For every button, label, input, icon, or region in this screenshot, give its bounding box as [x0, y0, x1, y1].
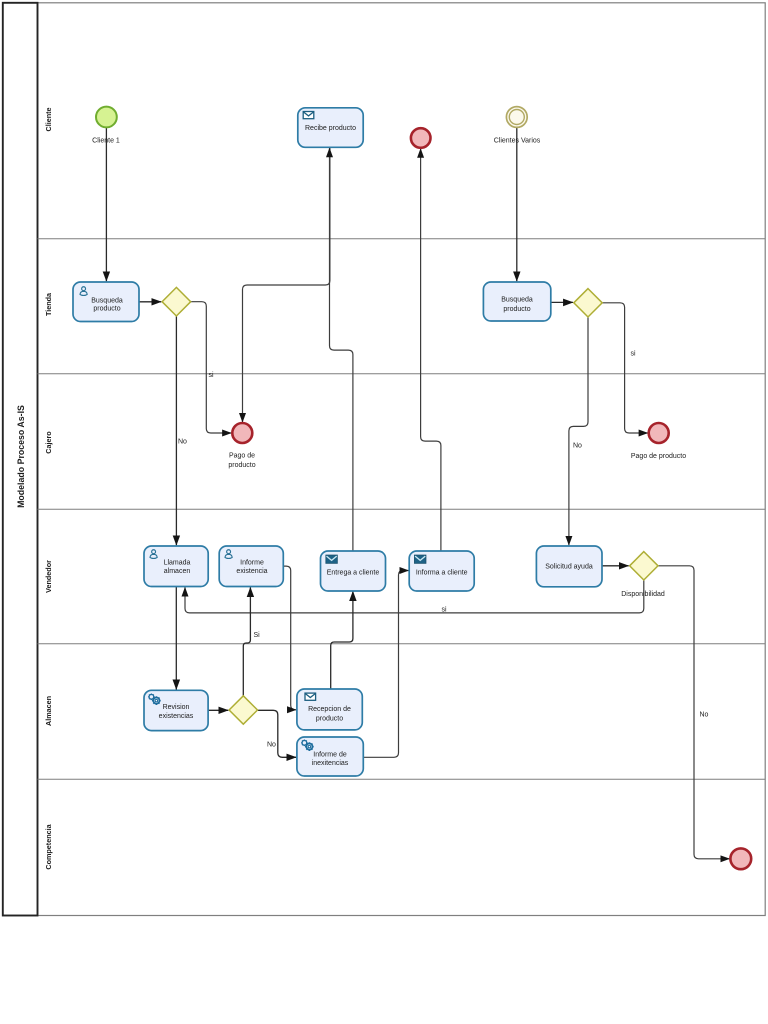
- svg-text:producto: producto: [228, 462, 255, 469]
- svg-text:Cajero: Cajero: [44, 431, 53, 454]
- task Informe existencia: [219, 546, 283, 587]
- gateway G4 (Almacen): [229, 696, 257, 724]
- task Revision existencias: [144, 690, 208, 730]
- svg-text:inexitencias: inexitencias: [312, 760, 349, 767]
- wire G2 si to Pago right: [602, 303, 647, 433]
- svg-text:Clientes Varios: Clientes Varios: [494, 138, 541, 145]
- svg-text:Informe: Informe: [240, 560, 264, 567]
- gateway Disponibilidad: [630, 552, 658, 580]
- wire Informe de inexitencias to Informa a cliente: [364, 571, 409, 758]
- wire Busqueda producto to gateway G1: [139, 301, 161, 303]
- lane divider 3: [38, 508, 766, 510]
- end event (Cliente lane): [411, 128, 431, 148]
- end event Pago de producto right: [649, 423, 669, 443]
- gateway G2 (Tienda right): [574, 289, 602, 317]
- wire Clientes Varios to Busqueda producto R: [516, 127, 518, 281]
- svg-text:producto: producto: [93, 306, 120, 313]
- pool header: [3, 3, 38, 916]
- wire G4 No to Informe de inexitencias: [258, 710, 296, 757]
- svg-text:Tienda: Tienda: [44, 292, 53, 316]
- svg-text:Pago de: Pago de: [229, 453, 255, 460]
- svg-text:Busqueda: Busqueda: [91, 297, 123, 304]
- svg-text:Informa a cliente: Informa a cliente: [416, 570, 468, 577]
- gateway G1 (Tienda left): [162, 287, 191, 316]
- wire Entrega a cliente to Recibe producto: [330, 148, 353, 551]
- svg-text:No: No: [700, 712, 709, 719]
- wire Disponibilidad No to Competencia end: [658, 566, 729, 859]
- svg-text:Pago de producto: Pago de producto: [631, 453, 686, 460]
- svg-text:Modelado Proceso As-IS: Modelado Proceso As-IS: [16, 405, 26, 508]
- wire Informa a cliente to end event Cliente: [421, 149, 441, 551]
- svg-text:producto: producto: [316, 716, 343, 723]
- svg-text:Informe de: Informe de: [313, 751, 347, 758]
- svg-text:No: No: [178, 439, 187, 446]
- svg-text:Cliente 1: Cliente 1: [92, 138, 120, 145]
- task Recibe producto: [298, 108, 363, 148]
- task Entrega a cliente: [321, 551, 386, 591]
- end event Competencia: [730, 848, 751, 869]
- svg-text:Entrega a cliente: Entrega a cliente: [327, 570, 380, 577]
- lane divider 2: [38, 373, 766, 375]
- svg-text:existencias: existencias: [159, 713, 194, 720]
- wire G4 Si to Informe existencia: [243, 587, 250, 695]
- task Solicitud ayuda: [536, 546, 602, 587]
- svg-text:si: si: [631, 351, 637, 358]
- wire Disponibilidad si to Llamada almacen (long): [185, 580, 644, 613]
- svg-text:producto: producto: [503, 306, 530, 313]
- start event Clientes Varios: [506, 107, 527, 128]
- lane divider 4: [38, 643, 766, 645]
- end event Pago de producto left: [232, 423, 252, 443]
- svg-text:Almacen: Almacen: [44, 696, 53, 726]
- svg-text:Busqueda: Busqueda: [501, 297, 533, 304]
- wire Busqueda R to gateway G2: [551, 301, 573, 303]
- svg-text:Si: Si: [254, 632, 261, 639]
- svg-text:almacen: almacen: [164, 568, 191, 575]
- wire Recepcion de producto to Entrega a cliente: [331, 591, 353, 689]
- task Busqueda producto (left): [73, 282, 139, 322]
- task Busqueda producto (right): [483, 282, 550, 321]
- svg-text:Solicitud ayuda: Solicitud ayuda: [545, 564, 593, 571]
- task Llamada almacen: [144, 546, 208, 587]
- svg-text:Llamada: Llamada: [164, 560, 191, 567]
- wire Recibe producto to Pago left: [243, 148, 330, 423]
- wire Solicitud ayuda to Disponibilidad: [602, 565, 628, 567]
- svg-text:Vendedor: Vendedor: [44, 560, 53, 593]
- task Recepcion de producto: [297, 689, 362, 730]
- svg-text:Cliente: Cliente: [44, 108, 53, 132]
- wire G1 si to Pago left: [191, 302, 232, 433]
- wire G1 No to Llamada almacen: [175, 316, 177, 545]
- svg-text:Recibe producto: Recibe producto: [305, 125, 356, 132]
- wire Llamada almacen to Revision existencias: [175, 587, 177, 690]
- svg-text:Disponibilidad: Disponibilidad: [621, 591, 665, 598]
- svg-text:existencia: existencia: [236, 568, 267, 575]
- wire G2 No to Solicitud ayuda: [569, 317, 588, 545]
- lane divider 1: [38, 238, 766, 240]
- svg-text:Competencia: Competencia: [44, 823, 53, 869]
- svg-text:No: No: [573, 443, 582, 450]
- svg-text:Recepcion de: Recepcion de: [308, 706, 351, 713]
- svg-text:si: si: [442, 606, 448, 613]
- task Informa a cliente: [409, 551, 474, 591]
- wire Cliente1 to Busqueda producto: [105, 128, 107, 282]
- start event Cliente 1: [96, 107, 117, 128]
- svg-text:No: No: [267, 742, 276, 749]
- svg-text:si: si: [209, 372, 215, 379]
- lane divider 5: [38, 778, 766, 780]
- task Informe de inexitencias: [297, 737, 363, 776]
- svg-text:Revision: Revision: [163, 704, 190, 711]
- wire Informe existencia to Recepcion de producto: [284, 566, 297, 710]
- wire Revision existencias to G4: [208, 709, 228, 711]
